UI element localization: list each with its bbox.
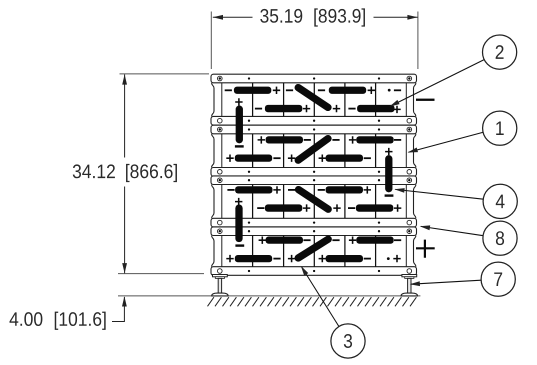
extension line bottom of height dimension xyxy=(118,273,204,275)
diagonal connector strap tray4 cells3-4 xyxy=(298,239,328,258)
battery tray 1 (top) bottom rail screws and rivets xyxy=(218,118,412,123)
battery tray 3 bottom rail xyxy=(211,218,417,227)
inter-tier strap end minus tray4 xyxy=(235,244,244,246)
connector strap tray4 lower cells1-2 xyxy=(235,255,272,262)
polarity signs tray1 upper row xyxy=(225,87,401,94)
dimension line 34.12 lower segment with down arrow xyxy=(122,187,127,274)
extension line left of top width dimension xyxy=(210,12,212,70)
battery tray 1 (top) top rail xyxy=(211,74,417,83)
balloon callout 8 xyxy=(483,221,517,255)
connector strap tray3 upper cells4-5 xyxy=(326,186,363,193)
battery tray 1 (top) top rail screws and rivets xyxy=(218,76,412,81)
battery tray 2 bottom rail xyxy=(211,168,417,177)
extension line right of top width dimension xyxy=(417,12,419,70)
connector strap tray2 lower cells1-2 xyxy=(235,155,272,162)
connector strap tray4 upper cells2-3 xyxy=(266,237,303,244)
leader to balloon 8 xyxy=(420,225,484,235)
battery tray 4 (bottom) top rail xyxy=(211,227,417,236)
dimension line 35.19 right segment with arrow xyxy=(374,15,418,20)
dimension text 35.19 [893.9] xyxy=(260,8,365,26)
connector strap tray4 lower cells4-5 xyxy=(326,255,363,262)
ground extension line xyxy=(118,295,420,297)
dimension line 35.19 left segment with arrow xyxy=(213,15,253,20)
battery tray 4 (bottom) bottom rail screws and rivets xyxy=(218,269,412,274)
diagonal connector strap tray3 cells3-4 xyxy=(299,190,329,210)
diagonal connector strap tray2 cells3-4 xyxy=(298,139,328,161)
battery tray 3 top rail screws and rivets xyxy=(218,178,412,183)
battery tray 2 top rail xyxy=(211,125,417,134)
polarity signs tray2 lower row xyxy=(226,148,392,162)
battery tray 4 (bottom) bottom rail xyxy=(211,267,417,276)
leader to balloon 1 xyxy=(408,132,484,152)
balloon callout 3 xyxy=(331,324,365,358)
polarity signs tray1 lower row xyxy=(235,98,401,113)
polarity signs tray2 upper row xyxy=(258,136,402,143)
balloon callout 1 xyxy=(483,111,517,145)
battery tray 4 (bottom) top rail screws and rivets xyxy=(218,229,412,234)
connector strap tray2 upper cells5-6 xyxy=(356,136,393,143)
leader to balloon 7 xyxy=(410,280,482,286)
inter-tier vertical strap trays1-2 xyxy=(236,109,243,140)
connector strap tray2 lower cells4-5 xyxy=(326,155,363,162)
battery tray 3 top rail xyxy=(211,176,417,185)
ground hatching xyxy=(208,297,417,306)
inter-tier vertical strap trays3-4 xyxy=(235,208,242,238)
connector strap tray4 upper cells5-6 xyxy=(356,237,393,244)
polarity signs tray3 lower row xyxy=(235,198,401,212)
inter-tier vertical strap trays2-3 xyxy=(385,159,392,189)
connector strap tray3 lower cells2-3 xyxy=(265,204,302,211)
battery tray 3 bottom rail screws and rivets xyxy=(218,220,412,225)
connector strap tray2 upper cells2-3 xyxy=(266,136,303,143)
battery tray 3 body walls and cell dividers xyxy=(212,185,416,219)
balloon callout 4 xyxy=(483,184,517,218)
connector strap tray1 lower cells5-6 xyxy=(357,105,394,112)
polarity signs tray4 lower row xyxy=(226,255,400,262)
leader to balloon 3 xyxy=(301,266,339,327)
battery tray 1 (top) bottom rail xyxy=(211,116,417,125)
battery tray 2 body walls and cell dividers xyxy=(212,134,416,168)
battery tray 4 (bottom) body walls and cell dividers xyxy=(212,236,416,267)
connector strap tray3 lower cells5-6 xyxy=(356,204,393,211)
balloon callout 7 xyxy=(481,262,515,296)
positive terminal mark xyxy=(416,240,435,258)
negative terminal mark xyxy=(416,99,435,101)
connector strap tray1 upper cells4-5 xyxy=(329,87,366,94)
connector strap tray1 lower cells2-3 xyxy=(265,105,302,112)
battery tray 1 (top) body walls and cell dividers xyxy=(212,83,416,117)
left support leg xyxy=(212,275,228,296)
polarity signs tray3 upper row xyxy=(227,186,371,193)
inter-tier strap end minus tray2 xyxy=(235,145,244,147)
inter-tier strap end minus tray3 xyxy=(385,194,394,196)
dimension line 34.12 upper segment with up arrow xyxy=(122,74,127,157)
polarity signs tray4 upper row xyxy=(259,237,402,244)
right support leg xyxy=(401,275,417,296)
battery tray 2 top rail screws and rivets xyxy=(218,127,412,132)
balloon callout 2 xyxy=(483,35,517,69)
extension line top of height dimension xyxy=(120,73,210,75)
leader to balloon 2 xyxy=(389,60,484,107)
dimension text 34.12 [866.6] xyxy=(73,164,177,182)
leader to balloon 4 xyxy=(394,188,483,199)
connector strap tray3 upper cells1-2 xyxy=(235,186,272,193)
connector strap tray1 upper cells1-2 xyxy=(234,87,271,94)
leader of 4.00 dimension with up arrow xyxy=(112,296,127,321)
battery tray 2 bottom rail screws and rivets xyxy=(218,170,412,175)
diagonal connector strap tray1 cells3-4 xyxy=(298,88,328,108)
dimension text 4.00 [101.6] xyxy=(10,312,106,330)
